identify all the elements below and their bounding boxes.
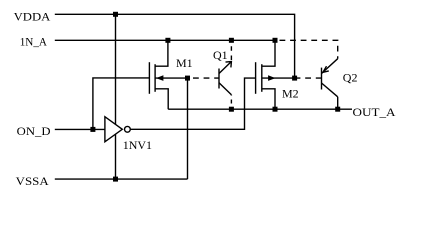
transistor Q2 base bar [321, 68, 323, 90]
wire dashed M2 body node to Q2 base [295, 77, 322, 79]
wire dashed Q1 collector to OUT rail [230, 95, 232, 110]
svg-text:M2: M2 [282, 86, 299, 100]
wire dashed IN_A to Q2 emitter [275, 40, 338, 58]
transistor M2 channel bar [261, 64, 263, 92]
svg-text:Q1: Q1 [213, 48, 228, 62]
wire M1 gate lead from ON_D [93, 78, 149, 129]
transistor Q1 emitter with arrow [219, 62, 231, 74]
transistor M1 gate bar [148, 62, 150, 94]
wire M1 drain up to IN_A [155, 40, 168, 66]
junction IN_A / M2 drain [273, 38, 278, 43]
svg-text:VDDA: VDDA [14, 10, 51, 24]
wire ON_D to inverter input [55, 128, 105, 130]
wire VDDA horizontal then down to M2 body node [55, 14, 295, 78]
wire M1 body down to VSSA [187, 78, 189, 179]
transistor Q2 collector [322, 83, 338, 97]
wire dashed Q1 emitter to IN_A [230, 42, 232, 62]
svg-text:ON_D: ON_D [17, 124, 51, 138]
wire M2 source down to OUT rail [262, 89, 275, 109]
junction VSSA / inverter rail [113, 177, 118, 182]
wire OUT_A rail [168, 108, 352, 110]
junction M1 body node [185, 76, 190, 81]
wire M1 source down to OUT rail [155, 89, 168, 109]
inverter 1INV1 bubble [125, 126, 131, 132]
inverter 1INV1 triangle [105, 117, 122, 142]
junction ON_D / M1 gate [90, 127, 95, 132]
wire inverter output to M2 gate [130, 78, 255, 129]
junction IN_A / Q1 emitter [229, 38, 234, 43]
transistor M1 channel bar [154, 64, 156, 92]
wire M2 drain up to IN_A [262, 40, 275, 66]
junction rail / Q1 collector [229, 107, 234, 112]
wire IN_A horizontal [55, 39, 275, 41]
transistor Q2 emitter with arrow [322, 59, 338, 74]
junction rail / Q2 collector [335, 107, 340, 112]
wire VSSA horizontal [55, 178, 188, 180]
svg-text:M1: M1 [176, 56, 193, 70]
transistor M2 body stub with arrow [262, 77, 295, 79]
wire Q2 collector to OUT rail [337, 97, 339, 109]
transistor M2 gate bar [255, 62, 257, 94]
svg-text:1NV1: 1NV1 [123, 138, 152, 152]
wire inverter power rail VDDA to VSSA [115, 14, 117, 179]
junction VDDA / inverter rail [113, 12, 118, 17]
wire dashed M1 body to Q1 base [188, 77, 220, 79]
transistor Q1 collector [219, 83, 231, 95]
svg-text:1N_A: 1N_A [20, 35, 48, 49]
junction VDDA / M2 body / Q2 base [292, 76, 297, 81]
junction IN_A / M1 drain [165, 38, 170, 43]
transistor Q1 base bar [218, 69, 220, 89]
svg-text:OUT_A: OUT_A [353, 105, 396, 119]
svg-text:VSSA: VSSA [16, 174, 49, 188]
junction rail / M2 source [273, 107, 278, 112]
transistor M1 body stub with arrow [155, 77, 187, 79]
svg-text:Q2: Q2 [343, 71, 358, 85]
